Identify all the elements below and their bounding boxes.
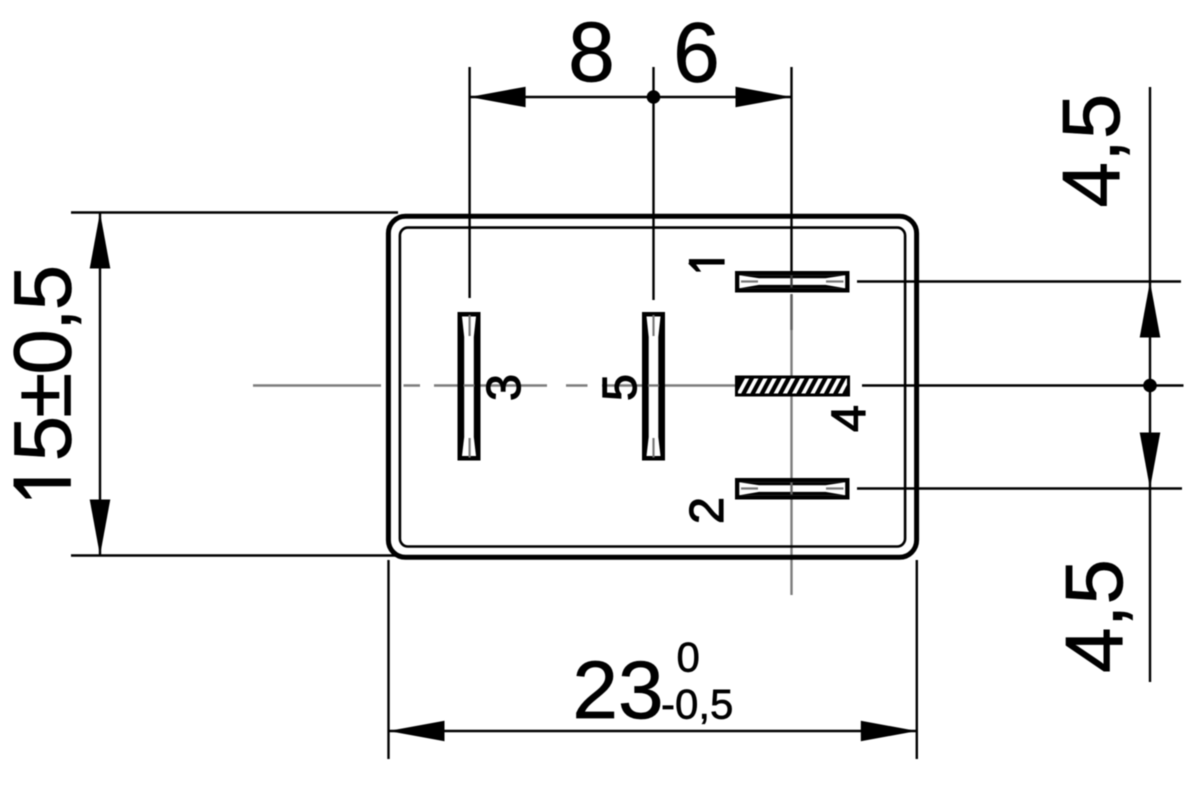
svg-text:4,5: 4,5 bbox=[1046, 94, 1137, 208]
svg-text:-0,5: -0,5 bbox=[661, 681, 733, 728]
svg-text:6: 6 bbox=[673, 6, 720, 100]
svg-text:4,5: 4,5 bbox=[1049, 559, 1140, 673]
svg-text:4: 4 bbox=[822, 405, 876, 432]
svg-text:3: 3 bbox=[477, 374, 531, 401]
svg-text:0: 0 bbox=[677, 634, 700, 681]
svg-text:8: 8 bbox=[568, 5, 615, 99]
svg-text:2: 2 bbox=[680, 497, 734, 524]
svg-text:5±0,5: 5±0,5 bbox=[0, 267, 89, 462]
svg-text:5: 5 bbox=[593, 374, 647, 401]
svg-text:23: 23 bbox=[572, 645, 663, 736]
